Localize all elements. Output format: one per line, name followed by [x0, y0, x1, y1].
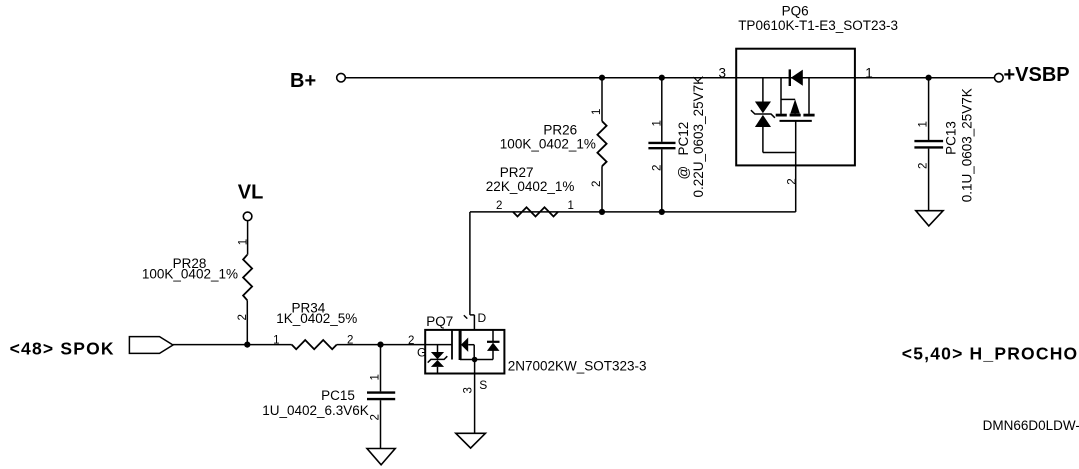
svg-text:@: @ [676, 166, 691, 180]
svg-text:2: 2 [237, 314, 249, 320]
zener PQ7 gate protection [428, 345, 448, 374]
svg-text:B+: B+ [290, 70, 316, 92]
PQ7 mosfet structure [452, 330, 493, 360]
svg-text:+VSBP: +VSBP [1004, 64, 1070, 86]
junction dot PQ7 source [472, 357, 478, 363]
node VL terminal [238, 181, 264, 220]
resistor PR28 [142, 221, 252, 345]
svg-text:22K_0402_1%: 22K_0402_1% [486, 179, 575, 194]
capacitor PC15 [262, 345, 395, 449]
svg-text:PC13: PC13 [944, 121, 959, 155]
zener PQ6 gate protection [751, 78, 796, 153]
svg-text:1: 1 [370, 374, 382, 380]
junction dot B+/PC13 [926, 75, 932, 81]
resistor PR26 [500, 78, 607, 212]
svg-text:PQ6: PQ6 [782, 4, 809, 19]
wire B+ rail [345, 77, 994, 79]
junction dot SPOK/PR28 [244, 342, 250, 348]
diode PQ6 body diode [790, 69, 803, 86]
svg-text:1: 1 [918, 121, 930, 127]
junction dot B+/PC12 [659, 75, 665, 81]
resistor PR27 [486, 165, 575, 217]
svg-text:2: 2 [786, 178, 798, 184]
svg-text:<5,40> H_PROCHO: <5,40> H_PROCHO [902, 344, 1079, 364]
svg-text:PC12: PC12 [676, 122, 691, 156]
svg-text:PC15: PC15 [321, 388, 355, 403]
ground PQ7 [456, 433, 486, 448]
wire PQ7 source to ground [474, 360, 476, 434]
junction dot rail/PC12 [659, 209, 665, 215]
svg-text:1K_0402_5%: 1K_0402_5% [276, 311, 357, 326]
ground PC15 [367, 449, 395, 465]
svg-text:2: 2 [408, 335, 414, 347]
transistor PQ6 [718, 4, 898, 185]
svg-text:1: 1 [273, 335, 279, 347]
svg-text:1: 1 [865, 66, 873, 81]
node +VSBP terminal [995, 64, 1070, 86]
ground PC13 [916, 211, 943, 226]
svg-text:2N7002KW_SOT323-3: 2N7002KW_SOT323-3 [508, 358, 647, 373]
svg-text:PQ7: PQ7 [426, 314, 453, 329]
svg-text:DMN66D0LDW-: DMN66D0LDW- [983, 418, 1079, 433]
svg-text:2: 2 [496, 200, 502, 212]
svg-text:0.1U_0603_25V7K: 0.1U_0603_25V7K [960, 88, 975, 202]
svg-text:PR26: PR26 [543, 123, 577, 138]
svg-text:1: 1 [568, 200, 574, 212]
svg-text:VL: VL [238, 181, 264, 203]
svg-text:1U_0402_6.3V6K: 1U_0402_6.3V6K [262, 403, 369, 418]
svg-text:3: 3 [463, 387, 475, 393]
wire PR34 to PQ7 gate [337, 344, 452, 346]
svg-text:2: 2 [370, 414, 382, 420]
junction dot B+/PR26 [599, 75, 605, 81]
junction dot PC15/gate [377, 342, 383, 348]
svg-text:PR27: PR27 [500, 165, 534, 180]
svg-text:2: 2 [591, 181, 603, 187]
PQ6 mosfet structure [776, 78, 815, 121]
svg-text:<48> SPOK: <48> SPOK [10, 339, 115, 359]
node B+ terminal [290, 70, 345, 92]
wire gate rail [470, 211, 796, 213]
svg-text:2: 2 [652, 165, 664, 171]
svg-text:D: D [478, 311, 487, 325]
svg-text:100K_0402_1%: 100K_0402_1% [500, 137, 596, 152]
capacitor PC12 [648, 76, 706, 212]
junction dot rail/PR26 [599, 209, 605, 215]
svg-text:3: 3 [718, 66, 726, 81]
svg-text:1: 1 [652, 120, 664, 126]
svg-text:TP0610K-T1-E3_SOT23-3: TP0610K-T1-E3_SOT23-3 [738, 18, 898, 33]
wire SPOK net [173, 344, 292, 346]
svg-text:100K_0402_1%: 100K_0402_1% [142, 267, 238, 282]
svg-text:2: 2 [918, 163, 930, 169]
svg-text:G: G [417, 345, 426, 359]
wire PR27 to PQ7 drain [464, 212, 475, 330]
svg-text:0.22U_0603_25V7K: 0.22U_0603_25V7K [691, 76, 706, 198]
svg-text:1: 1 [238, 239, 250, 245]
transistor PQ7 [408, 311, 647, 394]
diode PQ7 body diode [487, 330, 500, 360]
capacitor PC13 [914, 78, 974, 211]
resistor PR34 [273, 300, 357, 349]
svg-text:S: S [479, 378, 487, 392]
svg-text:1: 1 [591, 109, 603, 115]
node SPOK flag [10, 337, 173, 359]
wire PQ6 gate to rail [795, 121, 797, 212]
